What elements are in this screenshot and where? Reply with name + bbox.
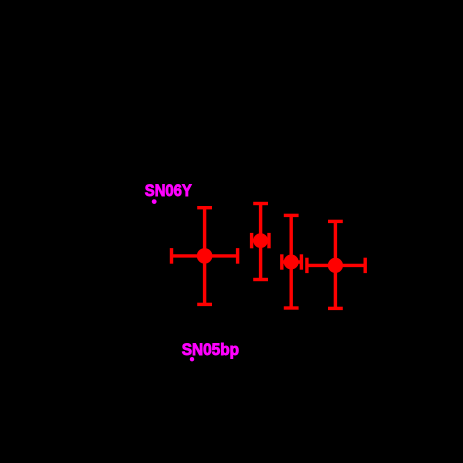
marker P4 xyxy=(328,258,343,273)
data point P4 with error bars xyxy=(307,221,365,308)
marker P2 xyxy=(253,233,268,248)
marker P1 xyxy=(197,248,213,264)
SN05bp point xyxy=(190,357,194,361)
data point P1 with error bars xyxy=(172,208,238,305)
SN06Y point xyxy=(152,199,157,204)
marker P3 xyxy=(284,255,299,270)
svg-text:SN06Y: SN06Y xyxy=(145,181,192,200)
data point P3 with error bars xyxy=(282,215,302,308)
svg-text:SN05bp: SN05bp xyxy=(182,340,239,359)
data point P2 with error bars xyxy=(252,204,269,280)
